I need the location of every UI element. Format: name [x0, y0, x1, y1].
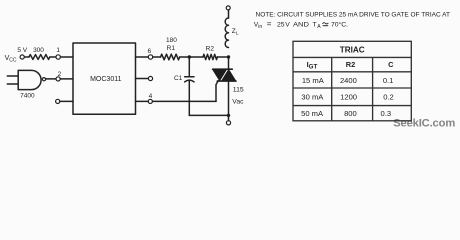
svg-text:30 mA: 30 mA: [301, 93, 324, 102]
capacitor C1 top lead: [188, 57, 190, 77]
svg-text:2400: 2400: [340, 76, 357, 85]
svg-text:300: 300: [33, 47, 44, 54]
svg-text:115: 115: [233, 87, 244, 94]
svg-text:0.2: 0.2: [383, 93, 394, 102]
node A junction dot: [188, 55, 191, 58]
terminal 115 Vac: [226, 121, 230, 125]
triac Q1 triangles: [213, 70, 236, 81]
gate 7400 bubble: [42, 78, 45, 81]
svg-text:AND: AND: [293, 22, 309, 29]
wire: [153, 56, 161, 58]
note approx-equal symbol: [323, 23, 329, 24]
svg-text:R1: R1: [167, 45, 176, 52]
svg-text:T: T: [313, 22, 317, 29]
wire: [50, 56, 56, 58]
svg-text:7400: 7400: [20, 93, 35, 100]
capacitor C1 top plate: [185, 76, 194, 78]
table frame: [293, 41, 411, 121]
triac Q1 bottom bar: [217, 80, 236, 82]
svg-text:4: 4: [149, 93, 153, 100]
svg-text:R2: R2: [206, 45, 215, 52]
wire: [180, 56, 203, 58]
svg-text:6: 6: [147, 48, 151, 55]
svg-text:in: in: [258, 24, 262, 30]
wire: [24, 56, 29, 58]
svg-text:180: 180: [166, 37, 177, 44]
wire pin 6: [136, 56, 149, 58]
resistor R2: [203, 54, 217, 59]
svg-text:15 mA: 15 mA: [302, 76, 325, 85]
wire: [228, 57, 230, 69]
svg-text:C1: C1: [174, 75, 183, 82]
wire: [61, 56, 74, 58]
table row lines: [293, 57, 411, 105]
svg-text:Vac: Vac: [232, 98, 244, 105]
triac Q1 gate lead: [216, 81, 218, 102]
node pin 2 terminal: [56, 77, 60, 81]
wire: [228, 10, 230, 18]
gate 7400 body: [18, 70, 41, 89]
node C junction dot: [227, 114, 230, 117]
svg-text:V: V: [285, 22, 290, 29]
wire bottom rail: [189, 114, 228, 116]
wire pin 5 stub: [136, 78, 149, 80]
svg-text:0.1: 0.1: [383, 76, 394, 85]
gate 7400 input wires: [7, 76, 18, 84]
triac Q1 MT1 lead: [228, 81, 230, 121]
svg-text:C: C: [388, 60, 394, 69]
wire: [60, 100, 73, 102]
capacitor C1 bottom plate: [185, 80, 194, 82]
svg-text:MOC3011: MOC3011: [90, 76, 121, 83]
node pin 6 terminal: [148, 55, 152, 59]
terminal line top: [226, 6, 230, 10]
svg-text:SeekIC.com: SeekIC.com: [393, 118, 455, 130]
svg-text:1200: 1200: [340, 93, 357, 102]
wire pin 4: [136, 100, 149, 102]
node pin 1 terminal: [56, 55, 60, 59]
node B junction dot: [227, 55, 230, 58]
wire gate lead from pin 4: [153, 100, 217, 102]
svg-text:NOTE: CIRCUIT SUPPLIES 25 mA D: NOTE: CIRCUIT SUPPLIES 25 mA DRIVE TO GA…: [256, 11, 451, 18]
svg-text:5 V: 5 V: [17, 47, 27, 54]
svg-text:2: 2: [58, 71, 62, 78]
resistor R1: [161, 54, 180, 60]
resistor 300: [29, 55, 50, 60]
svg-text:0.3: 0.3: [381, 109, 392, 118]
svg-text:TRIAC: TRIAC: [340, 46, 365, 55]
triac Q1 top bar: [213, 68, 233, 70]
svg-text:50 mA: 50 mA: [301, 109, 324, 118]
wire: [46, 78, 56, 80]
svg-text:=: =: [267, 20, 272, 29]
svg-text:25: 25: [277, 22, 285, 29]
capacitor C1 bottom lead: [188, 81, 190, 116]
node pin 5 terminal: [148, 76, 152, 80]
wire: [60, 78, 73, 80]
node pin 4 terminal: [148, 99, 152, 103]
inductor ZL coil: [225, 18, 228, 48]
svg-text:1: 1: [56, 47, 60, 54]
svg-text:R2: R2: [346, 60, 355, 69]
table column lines: [332, 57, 373, 120]
IC U1 MOC3011 box: [73, 43, 136, 114]
wire: [217, 56, 228, 58]
svg-text:800: 800: [344, 109, 357, 118]
terminal VCC: [20, 55, 24, 59]
node pin 3 terminal: [56, 99, 60, 103]
svg-text:70°C.: 70°C.: [331, 21, 348, 29]
